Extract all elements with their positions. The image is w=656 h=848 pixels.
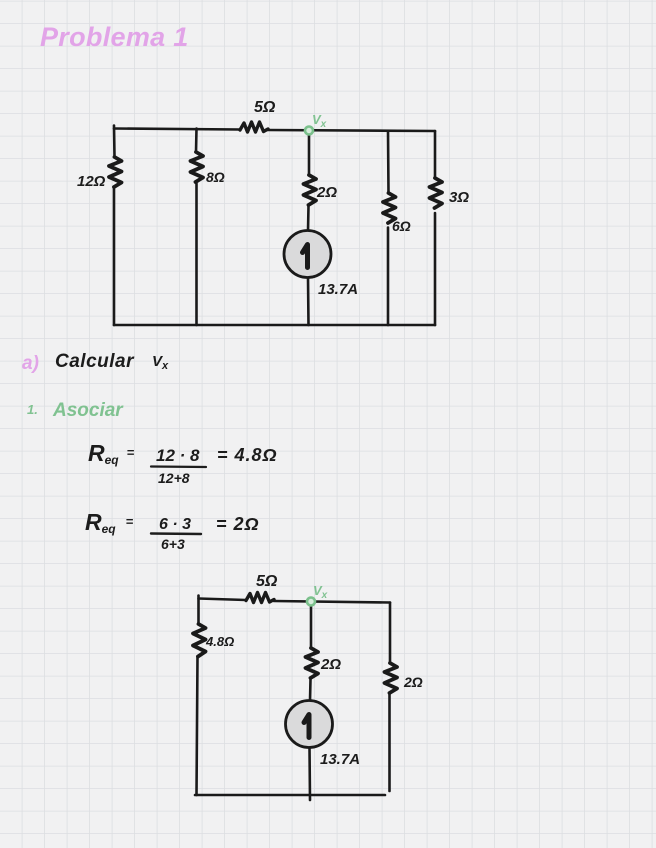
svg-text:8Ω: 8Ω [206,169,225,185]
current source arrow c2 [304,715,309,738]
svg-text:3Ω: 3Ω [449,189,469,206]
resistor 5ohm zigzag c2 [246,593,274,603]
resistor R 2ohm zigzag c2 [306,648,319,678]
resistor R 2ohm right zigzag c2 [385,663,398,693]
svg-text:= 2Ω: = 2Ω [216,514,260,534]
resistor R 2ohm zigzag [304,175,317,205]
svg-text:Problema 1: Problema 1 [40,22,189,52]
current source I2 circle [286,701,333,748]
resistor R 12ohm zigzag [109,157,122,187]
wire left vertical lower c2 [197,657,198,796]
svg-text:2Ω: 2Ω [320,656,341,673]
wire bottom [114,324,435,327]
wire fourth vertical [387,131,390,193]
node Vx marker c1 [305,127,313,135]
resistor 5ohm zigzag (horizontal) [240,122,268,132]
wire middle vertical upper [308,131,311,176]
wire middle to source c2 [309,680,312,701]
wire right vertical lower c2 [388,695,391,792]
svg-text:6Ω: 6Ω [392,218,411,234]
svg-text:6 · 3: 6 · 3 [159,516,191,533]
svg-text:2Ω: 2Ω [316,184,337,201]
resistor R 3ohm zigzag [430,178,443,208]
wire fifth vertical [434,131,437,178]
wire fourth vertical lower [387,228,390,326]
node Vx marker c2 [307,598,315,606]
current source I1 circle [284,231,331,278]
wire below source c2 [308,748,311,801]
wire top left segment [114,129,240,130]
wire middle vertical upper c2 [310,602,313,649]
grid [0,0,1,1]
wire left vertical lower [113,188,116,326]
svg-text:6+3: 6+3 [161,536,185,552]
svg-text:13.7A: 13.7A [320,751,360,768]
svg-text:12 · 8: 12 · 8 [156,446,200,465]
wire below source [307,278,310,326]
svg-text:12Ω: 12Ω [77,173,106,190]
svg-text:1.: 1. [27,402,38,417]
svg-text:5Ω: 5Ω [256,573,278,590]
svg-text:13.7A: 13.7A [318,281,358,298]
wire bottom c2 [195,794,385,797]
wire fifth vertical lower [434,213,437,325]
wire right vertical c2 [389,603,392,664]
wire left vertical c2 [197,596,200,625]
svg-text:= 4.8Ω: = 4.8Ω [217,445,278,465]
wire top right segment c2 [274,601,390,603]
wire middle to source [307,206,310,231]
wire top left segment c2 [199,599,247,601]
svg-text:Calcular: Calcular [55,351,135,372]
svg-text:a): a) [22,353,39,374]
svg-text:4.8Ω: 4.8Ω [205,634,234,649]
resistor R 6ohm zigzag [383,193,396,223]
current source arrow [303,245,308,268]
resistor R 8ohm zigzag [191,152,204,182]
svg-text:2Ω: 2Ω [403,674,423,690]
fraction bar 1 [151,465,206,468]
fraction bar 2 [151,532,201,535]
wire top right segment [268,130,435,131]
svg-text:12+8: 12+8 [158,470,190,486]
svg-text:5Ω: 5Ω [254,99,276,116]
svg-text:Asociar: Asociar [52,400,124,421]
resistor R 4.8ohm zigzag [193,624,206,657]
wire left vertical [113,126,116,158]
wire second vertical [195,129,198,153]
wire second vertical lower [195,184,198,326]
